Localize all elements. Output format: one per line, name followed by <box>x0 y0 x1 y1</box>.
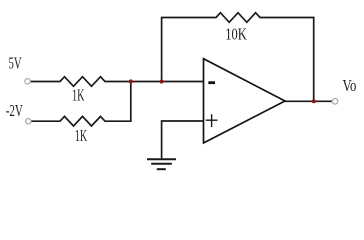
svg-text:-2V: -2V <box>6 101 23 120</box>
svg-text:1K: 1K <box>72 86 85 105</box>
svg-text:10K: 10K <box>225 24 247 43</box>
svg-text:5V: 5V <box>9 54 22 73</box>
svg-text:1K: 1K <box>75 126 87 145</box>
svg-text:Vo: Vo <box>343 76 357 95</box>
